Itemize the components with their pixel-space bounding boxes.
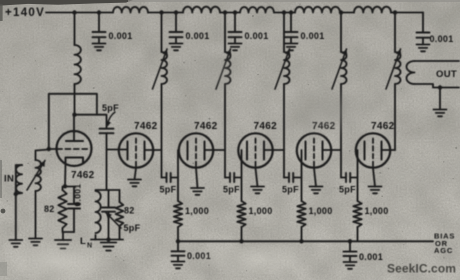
wire plate drop stage 3 to coupling: [224, 150, 226, 178]
arrow variable adjust stage 5: [332, 49, 347, 89]
variable inductor tuned coil stage 5: [341, 52, 347, 84]
ground V1 cathode: [55, 240, 71, 249]
tube V3 grid dashed: [195, 139, 197, 169]
node output ground junction: [438, 85, 442, 89]
resistor R4 1000 ohm: [237, 201, 245, 227]
wire rail drop to C2: [175, 13, 177, 32]
tube V1 envelope circle: [57, 131, 92, 166]
wire V3 cathode riser: [177, 150, 179, 201]
wire tuned coil to plate tube stage 6: [394, 84, 396, 150]
wire C6 down to LN tank: [106, 133, 108, 190]
wire cathode node to bypass cap: [65, 186, 74, 188]
wire V5 grid to ground: [314, 168, 316, 187]
wire rail segment 5: [340, 12, 354, 14]
wire V5 cathode riser: [301, 150, 303, 201]
capacitor 5pF coupling into V3: [167, 173, 171, 182]
tube V5 cathode bar: [305, 142, 307, 160]
ground input left: [9, 240, 22, 247]
wire +140V supply rail: [46, 12, 113, 14]
wire V5 plate lead: [323, 149, 342, 151]
ground input secondary: [29, 239, 42, 246]
tube V4 cathode bar: [246, 142, 248, 160]
arrow variable pointer C8: [106, 213, 121, 229]
node plate junction tube V1: [72, 113, 76, 117]
variable inductor tuned coil stage 4: [284, 52, 290, 84]
svg-text:0.001: 0.001: [430, 34, 454, 44]
arrow variable input secondary: [27, 161, 45, 191]
inductor output link coil: [407, 61, 415, 84]
wire V1 cathode lead down: [64, 164, 67, 187]
wire rail segment 4: [274, 12, 295, 14]
ground below C9: [172, 262, 185, 269]
svg-text:0.001: 0.001: [359, 252, 383, 262]
wire V3 plate lead: [205, 149, 226, 151]
svg-text:7462: 7462: [371, 121, 395, 132]
ground V6 grid: [369, 187, 382, 194]
wire plate drop stage 2 to coupling: [161, 150, 163, 178]
wire V6 grid to ground: [373, 168, 375, 187]
resistor R1 82 ohm: [62, 187, 64, 191]
wire tuned coil to plate tube stage 5: [340, 84, 342, 150]
arrow variable adjust stage 4: [275, 49, 290, 89]
tube V2 envelope circle: [119, 133, 153, 167]
wire V6 plate lead: [382, 149, 396, 151]
capacitor C4 0.001: [285, 32, 298, 37]
scan artifact left edge marks: [0, 4, 3, 21]
svg-text:5pF: 5pF: [160, 185, 177, 195]
wire rail drop to tuned coil stage 2: [161, 13, 163, 53]
wire output junction down: [439, 88, 441, 110]
choke L4 on rail: [240, 7, 274, 12]
wire rail segment 6: [391, 12, 423, 14]
svg-text:OUT: OUT: [436, 69, 457, 80]
choke L2 on rail: [113, 7, 148, 13]
svg-text:1,000: 1,000: [185, 206, 209, 216]
svg-text:82: 82: [124, 206, 135, 216]
capacitor C10 0.001 bias bypass: [344, 252, 357, 256]
wire rail segment 3: [220, 12, 240, 14]
ground below C5: [417, 45, 430, 52]
arrow variable adjust stage 3: [216, 49, 231, 89]
svg-text:5pF: 5pF: [339, 185, 356, 195]
scan artifact top edge streak: [0, 0, 133, 6]
svg-text:0.001: 0.001: [301, 31, 325, 41]
wire input common down: [15, 194, 17, 240]
tube V4 plate bar: [263, 142, 265, 160]
wire tuned coil to plate tube stage 2: [161, 84, 163, 150]
tube V6 cathode bar: [364, 142, 366, 160]
ground below C2: [170, 44, 183, 51]
svg-text:AGC: AGC: [434, 246, 453, 255]
capacitor C3 0.001: [229, 32, 242, 37]
svg-text:0.001: 0.001: [186, 31, 210, 41]
ground LN tank: [101, 243, 117, 251]
arrow label pointer to C6: [108, 112, 116, 124]
resistor R5 1000 ohm: [297, 201, 305, 227]
svg-text:7462: 7462: [71, 170, 95, 181]
tube V2 grid dashed: [135, 139, 137, 169]
inductor LN coil: [96, 191, 101, 233]
node rail junction dots: [72, 10, 76, 14]
wire rail drop to tuned coil stage 6: [394, 13, 396, 53]
wire input primary bottom lead: [16, 193, 22, 194]
tube V6 envelope circle: [356, 133, 390, 167]
wire output top lead: [415, 60, 460, 62]
capacitor C6 5pF coupling: [100, 129, 114, 134]
svg-text:1,000: 1,000: [309, 206, 333, 216]
wire V1 plate to coupling cap C6: [74, 115, 107, 129]
wire V4 grid to ground: [256, 168, 258, 187]
svg-text:7462: 7462: [134, 121, 158, 132]
wire drop to bias bypass C9: [177, 241, 179, 251]
wire V6 cathode riser: [357, 150, 359, 201]
capacitor C7 0.001 cathode bypass: [73, 187, 75, 204]
wire rail drop to tuned coil stage 4: [283, 13, 285, 53]
wire cathode network bottom join: [63, 228, 75, 232]
choke L6 on rail: [354, 7, 391, 13]
svg-text:82: 82: [44, 204, 55, 214]
ground below C3: [229, 44, 242, 51]
wire plate drop stage 4 to coupling: [283, 150, 285, 178]
tube V6 grid dashed: [372, 139, 374, 169]
ground output: [434, 110, 447, 117]
variable inductor tuned coil stage 2: [162, 52, 168, 84]
ground V5 grid: [310, 187, 323, 194]
inductor L1 stage1 plate coil: [75, 45, 81, 84]
tube V5 plate bar: [322, 142, 324, 160]
node bias rail junctions: [176, 239, 180, 243]
wire output bottom lead: [415, 84, 460, 88]
svg-text:0.001: 0.001: [73, 184, 83, 207]
svg-text:5pF: 5pF: [102, 103, 119, 113]
tube V4 grid dashed: [255, 139, 257, 169]
wire secondary top to V1 grid: [36, 150, 49, 161]
inductor T1 primary input coil: [16, 165, 22, 193]
svg-text:7462: 7462: [194, 121, 218, 132]
wire V2 grid to ground: [135, 168, 137, 180]
ground V4 grid: [251, 187, 264, 194]
wire tuned coil to plate tube stage 4: [283, 84, 285, 150]
svg-text:0.001: 0.001: [245, 31, 269, 41]
tube V5 envelope circle: [297, 133, 331, 167]
wire bias rail: [178, 240, 433, 242]
wire V3 grid to ground: [196, 168, 198, 188]
tube V1 cathode: [66, 158, 84, 164]
variable inductor tuned coil stage 6: [395, 52, 401, 84]
ground below C1: [93, 44, 106, 51]
svg-text:IN: IN: [4, 174, 14, 185]
scan artifact smudge blobs: [282, 86, 378, 138]
tube V4 envelope circle: [238, 133, 272, 167]
resistor R6 1000 ohm: [353, 201, 361, 227]
arrow variable adjust stage 2: [153, 49, 168, 89]
arrow variable adjust stage 6: [386, 49, 401, 89]
tube V1 grid dashed: [57, 148, 88, 150]
node V1 cathode junction: [63, 184, 67, 188]
wire V2 plate lead: [145, 149, 162, 151]
tube V3 envelope circle: [179, 133, 213, 167]
tube V1 plate bar: [66, 140, 83, 142]
wire V4 cathode riser: [241, 150, 243, 201]
wire plate drop stage 5 to coupling: [340, 150, 342, 178]
wire input primary top lead: [16, 165, 22, 194]
wire secondary bottom down: [35, 191, 37, 238]
tube V2 cathode bar: [127, 142, 129, 160]
wire rail drop to tuned coil stage 5: [340, 13, 342, 53]
tube V5 grid dashed: [313, 139, 315, 169]
wire V4 plate lead: [264, 149, 284, 151]
capacitor C8 5pF variable in LN tank: [108, 190, 110, 207]
capacitor 5pF coupling into V6: [346, 173, 350, 182]
capacitor 5pF coupling into V5: [289, 173, 293, 182]
wire rail drop to tuned coil stage 3: [224, 13, 226, 53]
wire rail drop to C5 at right end: [422, 13, 424, 33]
capacitor C1 0.001: [93, 32, 106, 37]
inductor T1 secondary input coil: [36, 160, 41, 191]
wire from rail to L1 plate coil: [74, 13, 76, 46]
wire neutralization loop V1 grid to plate: [49, 94, 97, 149]
ground below C10: [344, 262, 357, 269]
wire LN tank bottom bus: [91, 239, 123, 241]
wire tuned coil to plate tube stage 3: [224, 84, 226, 150]
svg-text:1,000: 1,000: [365, 206, 389, 216]
node grid junction V1: [47, 147, 51, 151]
svg-text:5pF: 5pF: [282, 185, 299, 195]
wire rail drop to C3: [234, 13, 236, 32]
resistor R3 1000 ohm: [174, 201, 182, 227]
capacitor 5pF coupling into V4: [230, 173, 234, 182]
capacitor C5 0.001: [417, 33, 430, 38]
svg-text:SeekIC.com: SeekIC.com: [387, 262, 456, 276]
wire drop to bias bypass C10: [349, 241, 351, 251]
ground V3 grid: [191, 188, 204, 195]
wire rail drop to C1: [98, 13, 100, 32]
svg-text:5pF: 5pF: [124, 223, 141, 233]
svg-text:1,000: 1,000: [249, 206, 273, 216]
svg-text:0.001: 0.001: [109, 31, 133, 41]
variable inductor tuned coil stage 3: [225, 52, 231, 84]
wire V1 grid lead to node: [49, 148, 57, 150]
choke L3 on rail: [183, 7, 220, 13]
capacitor C9 0.001 bias bypass: [172, 251, 185, 255]
svg-text:+140V: +140V: [5, 7, 45, 19]
ground below C4: [285, 44, 298, 51]
tube V6 plate bar: [381, 142, 383, 160]
wire C6 node to V2 cathode: [107, 149, 128, 151]
choke L5 on rail: [295, 7, 340, 13]
capacitor C2 0.001: [170, 32, 183, 37]
resistor R2 82 ohm in LN tank: [119, 190, 121, 202]
wire L1 to plate node: [74, 84, 76, 115]
svg-text:5pF: 5pF: [223, 185, 240, 195]
wire rail drop to C4: [290, 13, 292, 32]
wire rail segment 2: [148, 12, 183, 14]
tube V3 plate bar: [204, 142, 206, 160]
wire V1 plate lead: [73, 115, 75, 141]
node LN bottom junction: [106, 237, 110, 241]
ground V2 grid: [128, 180, 141, 187]
node input common: [14, 192, 18, 196]
tube V2 plate bar: [144, 142, 146, 160]
svg-text:7462: 7462: [254, 121, 278, 132]
wire LN tank top bus: [96, 189, 120, 191]
tube V3 cathode bar: [187, 142, 189, 160]
